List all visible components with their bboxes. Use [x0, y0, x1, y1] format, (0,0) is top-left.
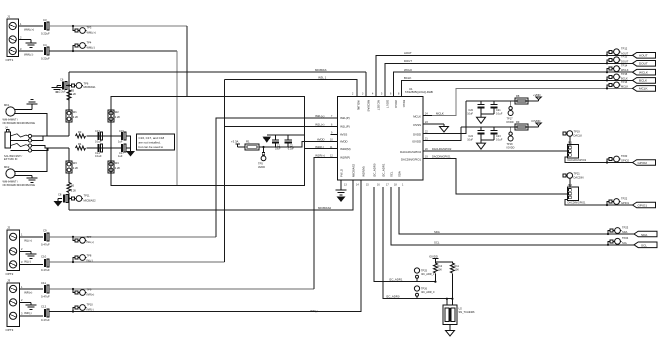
svg-text:TP8: TP8 — [87, 253, 92, 257]
microphone MK2 — [3, 165, 36, 187]
svg-text:ON BOARD MICROPHONE: ON BOARD MICROPHONE — [3, 183, 36, 187]
capacitor C16 in box — [118, 129, 126, 144]
capacitor C23 IOVDD — [491, 127, 503, 141]
test point TP4 WML(-) — [75, 40, 95, 49]
svg-text:+VDD: +VDD — [533, 93, 541, 97]
svg-text:OPT2: OPT2 — [6, 272, 14, 276]
svg-text:DVDD: DVDD — [507, 121, 514, 124]
wire tap up to TP4 — [73, 46, 75, 52]
wire TP21 to jumper JP2 — [569, 178, 571, 187]
svg-text:SCL: SCL — [434, 241, 440, 245]
ground below MK2 — [19, 176, 38, 183]
svg-text:C12: C12 — [41, 304, 47, 308]
svg-text:AOUT: AOUT — [621, 51, 629, 55]
ground DVDD caps — [477, 114, 486, 123]
svg-text:DACDIN: DACDIN — [574, 175, 584, 179]
wire I2C_ADR0 from IC pin17 — [383, 187, 452, 299]
wire DVDD rail — [466, 100, 539, 102]
svg-text:TAS2505Q-DGQ-RHB: TAS2505Q-DGQ-RHB — [405, 90, 433, 94]
svg-text:SCL: SCL — [390, 171, 394, 177]
svg-text:DACDIN/GPIO1: DACDIN/GPIO1 — [568, 202, 587, 205]
capacitor C2 0.1uF AVDD — [285, 135, 295, 151]
svg-text:DVSS: DVSS — [413, 123, 421, 127]
ground MICBIAS2 cap — [54, 199, 63, 207]
wire INR(+) vertical up to IC pin12 — [314, 158, 338, 290]
test point TP9 INR(+) — [73, 287, 94, 296]
junction ADR1 — [434, 281, 436, 283]
svg-text:10uF: 10uF — [275, 148, 281, 151]
svg-text:IN2L(+): IN2L(+) — [315, 114, 324, 118]
svg-text:INR(+): INR(+) — [87, 292, 95, 296]
svg-text:IOVDD: IOVDD — [507, 146, 515, 149]
wire SDA from IC pin1 — [399, 187, 635, 234]
jumper W3 mic left bottom — [66, 148, 79, 173]
junction MICBIAS1 node — [68, 84, 70, 86]
svg-text:WCLK: WCLK — [394, 100, 398, 108]
svg-text:TP13: TP13 — [621, 55, 628, 59]
ground J2 pin2 — [19, 251, 36, 258]
svg-text:MICBIAS1: MICBIAS1 — [84, 85, 97, 89]
svg-text:0.1uF: 0.1uF — [496, 112, 503, 115]
wire IC pin19 DACDIN route to jumper JP2 — [423, 159, 568, 195]
test point TP17 DVDD — [507, 101, 514, 124]
svg-text:WML(+): WML(+) — [87, 30, 96, 34]
resistor R11 10K — [450, 263, 459, 305]
svg-text:TP10: TP10 — [87, 302, 94, 306]
svg-text:IOVDD: IOVDD — [532, 119, 541, 123]
jumper JP1 3pin — [568, 140, 587, 162]
wire WML(+) branch down x186.8 to box — [186, 26, 188, 97]
svg-text:IOVDD: IOVDD — [412, 140, 421, 144]
resistor R10 10K — [434, 262, 443, 282]
svg-text:W4: W4 — [115, 161, 119, 165]
box around mic input option area — [111, 97, 305, 186]
junction at TP3 tap — [72, 25, 74, 27]
svg-text:GPIO2: GPIO2 — [638, 161, 648, 165]
capacitor C21 DVDD — [491, 101, 503, 115]
svg-text:TP7: TP7 — [87, 235, 92, 239]
svg-text:W1: W1 — [73, 110, 77, 114]
capacitor C1 10uF AVDD — [272, 135, 281, 151]
svg-text:R3: R3 — [78, 130, 82, 134]
wire mic line1 into box — [87, 135, 123, 137]
wire AVDD row to IC pin10 — [259, 142, 338, 148]
svg-text:2.2K: 2.2K — [115, 166, 121, 170]
power flag +3.3A — [231, 140, 250, 147]
capacitor C3 0.22uF — [41, 18, 50, 36]
svg-text:I2C_ADR0: I2C_ADR0 — [386, 295, 400, 299]
wire top line y79.5 to IC top pin — [225, 80, 358, 97]
svg-text:INR(-): INR(-) — [87, 307, 94, 311]
svg-text:R6: R6 — [71, 184, 75, 188]
wire cap2 to ground node — [126, 147, 131, 149]
svg-text:GPIO2: GPIO2 — [621, 159, 629, 163]
svg-text:BCLK: BCLK — [639, 79, 648, 83]
svg-text:IOVDD: IOVDD — [429, 255, 438, 259]
capacitor C11 0.47uF — [41, 281, 50, 299]
svg-text:TP4: TP4 — [87, 40, 92, 44]
test point TP11 MICBIAS2 — [69, 193, 96, 202]
resistor R5 2.2K vertical — [67, 89, 76, 101]
flag SDA — [634, 231, 657, 237]
svg-text:TP5: TP5 — [258, 162, 263, 166]
svg-text:MK1: MK1 — [4, 103, 10, 107]
svg-text:AVDD: AVDD — [317, 138, 325, 142]
svg-text:C16, C17, and C18: C16, C17, and C18 — [139, 136, 165, 140]
svg-text:R9: R9 — [516, 120, 520, 124]
svg-text:C9: C9 — [43, 229, 47, 233]
svg-text:J1: J1 — [7, 15, 11, 19]
svg-text:0.1uF: 0.1uF — [496, 138, 503, 141]
svg-text:TP19: TP19 — [574, 129, 581, 133]
ground above MK1 — [19, 100, 38, 110]
svg-text:IN1R(M): IN1R(M) — [340, 147, 351, 151]
svg-text:DACDIN/GPIO1: DACDIN/GPIO1 — [401, 158, 421, 162]
svg-text:10uF: 10uF — [467, 138, 473, 141]
svg-text:SDA: SDA — [622, 230, 628, 234]
svg-text:TP22: TP22 — [621, 196, 628, 200]
wire WML(+) long run to x347 — [49, 25, 187, 27]
test point TP19 DACLK — [563, 129, 582, 137]
test point TP6 MICBIAS1 — [69, 82, 96, 90]
svg-text:WML(-): WML(-) — [87, 45, 96, 49]
power flag IOVDD pullups — [429, 255, 439, 263]
test point TP5 AVDD — [258, 147, 266, 169]
svg-text:DACDIN/GPIO1: DACDIN/GPIO1 — [432, 154, 451, 158]
wire J3 pin1 to C11 — [19, 288, 43, 290]
svg-text:TP12: TP12 — [621, 47, 628, 51]
jack contact 1 — [10, 134, 31, 138]
wire caps to ground in box — [126, 136, 131, 151]
jumper W2 mic right top — [108, 97, 121, 137]
svg-text:DOUT: DOUT — [621, 59, 629, 63]
resistor R4 mic line2 — [76, 142, 86, 150]
test point plug row MCLK — [607, 80, 628, 89]
capacitor C17 in box — [118, 144, 126, 158]
svg-text:R1: R1 — [246, 140, 250, 144]
svg-text:DACLK: DACLK — [574, 133, 583, 137]
capacitor C13 mic line1 — [95, 129, 103, 144]
svg-text:BCLK: BCLK — [621, 76, 628, 80]
svg-text:0.1uF: 0.1uF — [288, 148, 295, 151]
svg-text:TP15: TP15 — [621, 72, 628, 76]
wire caps join to ground DVDD — [481, 113, 494, 115]
svg-text:MK2: MK2 — [4, 165, 10, 169]
wire IC pin23 DVSS stub — [423, 123, 444, 125]
svg-text:C4: C4 — [43, 43, 47, 47]
svg-text:0.47uF: 0.47uF — [41, 242, 50, 246]
ground in mic box — [126, 151, 135, 157]
svg-text:GPIO1: GPIO1 — [621, 201, 629, 205]
svg-text:C17: C17 — [119, 151, 124, 155]
connector J3 (line in, bottom left) — [6, 279, 24, 333]
svg-text:BCLK: BCLK — [404, 76, 411, 80]
wire into U2 top pin — [446, 299, 448, 305]
svg-text:MICBIAS2: MICBIAS2 — [84, 198, 97, 202]
svg-text:WCLK: WCLK — [639, 71, 649, 75]
note box C16 C17 C18 — [137, 134, 175, 150]
svg-text:2.2K: 2.2K — [115, 115, 121, 119]
svg-text:TP24: TP24 — [622, 236, 629, 240]
svg-text:0.22uF: 0.22uF — [41, 57, 50, 61]
resistor R3 mic line1 — [76, 130, 86, 138]
svg-text:INR(-): INR(-) — [24, 311, 32, 315]
flag DOUT — [633, 61, 656, 67]
svg-text:MCLK: MCLK — [413, 115, 421, 119]
wire MICBIAS to IC top pin1 — [365, 72, 367, 97]
svg-text:TP16: TP16 — [621, 80, 628, 84]
svg-text:MCLK: MCLK — [639, 87, 649, 91]
wire IOVDD rail — [461, 126, 539, 128]
test point plug row AOUT — [607, 47, 629, 56]
svg-text:SN_TCA9406: SN_TCA9406 — [459, 310, 476, 314]
svg-text:SDA: SDA — [434, 230, 440, 234]
svg-text:AVDD: AVDD — [258, 165, 265, 169]
svg-text:W2: W2 — [115, 110, 119, 114]
ground DVSS open — [440, 124, 449, 132]
svg-text:C16: C16 — [119, 129, 124, 133]
ground J3 pin2 — [19, 302, 36, 309]
svg-text:WCLK: WCLK — [621, 68, 629, 72]
svg-text:IN3L 1: IN3L 1 — [318, 75, 327, 79]
svg-text:WML(+): WML(+) — [24, 28, 34, 32]
svg-text:10uF: 10uF — [467, 112, 473, 115]
svg-text:0.47uF: 0.47uF — [41, 268, 50, 272]
svg-text:TP14: TP14 — [621, 64, 628, 68]
junction ADR0 at R11 — [451, 298, 453, 300]
svg-text:C8: C8 — [58, 192, 62, 196]
wire IC pin11 route — [305, 148, 338, 150]
test point plug row DOUT — [607, 55, 629, 64]
wire J2 pin3 to C10 — [19, 263, 43, 265]
svg-text:BCLK: BCLK — [402, 100, 406, 107]
ground J1 pin2 — [19, 40, 37, 48]
junction dots at test point taps — [72, 50, 609, 313]
jack contact 2 — [10, 139, 31, 142]
svg-text:DACLRC/GPIO2: DACLRC/GPIO2 — [568, 159, 587, 162]
wire WML(-) to vertical — [49, 50, 177, 52]
jack contact 4 — [10, 149, 31, 152]
svg-text:W3: W3 — [73, 161, 77, 165]
ground U2 — [446, 325, 455, 336]
test point TP8 INL(-) — [73, 253, 93, 262]
svg-text:0.1uF: 0.1uF — [95, 140, 102, 144]
junction AVDD — [262, 146, 264, 148]
wire MICBIAS1 corner down — [68, 72, 70, 110]
capacitor C14 mic line2 — [95, 144, 103, 158]
wire IC pin9 AVSS stub — [331, 134, 338, 136]
wire IC pin21 IOVDD feed — [423, 127, 461, 141]
svg-text:AVDD: AVDD — [340, 140, 348, 144]
svg-text:C10: C10 — [41, 254, 47, 258]
svg-text:J2: J2 — [7, 226, 11, 230]
svg-text:INL(+): INL(+) — [24, 238, 32, 242]
wire J1 pin3 to C4 — [19, 50, 43, 52]
flag MCLK — [633, 86, 656, 92]
wire BCLK bus — [402, 80, 634, 96]
ground at MICBIAS1 cap — [52, 86, 63, 92]
svg-text:MICBIAS: MICBIAS — [367, 100, 371, 112]
svg-text:GPIO1: GPIO1 — [638, 203, 648, 207]
test point TP21 DACDIN — [563, 171, 584, 179]
svg-text:but can be used to: but can be used to — [139, 145, 164, 149]
wire MICBIAS1 horizontal run — [69, 71, 366, 73]
wire TP25 stub to ADR1 row — [416, 278, 418, 281]
svg-text:I2C_ADR0: I2C_ADR0 — [373, 163, 377, 177]
svg-text:DACLRC/GPIO2: DACLRC/GPIO2 — [432, 147, 452, 151]
test point TP3 WML(+) — [75, 25, 96, 34]
svg-text:IN1R(M): IN1R(M) — [362, 166, 366, 177]
wire jack c4 joins line2 — [32, 148, 48, 150]
svg-text:1uF: 1uF — [118, 154, 123, 158]
capacitor C20 DVDD — [467, 101, 484, 115]
capacitor C6 MICBIAS1 — [59, 78, 67, 94]
wire IC pin6 horizontal — [225, 126, 338, 128]
wire INL(-) vertical up to PDLL line — [224, 80, 226, 263]
svg-text:WCLK: WCLK — [404, 68, 412, 72]
svg-text:ON BOARD MICROPHONE: ON BOARD MICROPHONE — [3, 121, 36, 125]
test point plug SCL — [608, 236, 629, 245]
wire JP2 to GPIO1 plug — [565, 200, 633, 206]
svg-text:WM-64MNT /: WM-64MNT / — [3, 118, 19, 122]
svg-text:INL(+): INL(+) — [87, 240, 94, 244]
jumper W4 mic right bottom — [108, 148, 121, 185]
svg-text:J3: J3 — [7, 279, 11, 283]
flag SCL — [634, 242, 657, 248]
svg-text:2.2K: 2.2K — [71, 92, 77, 96]
wire IC pin20 DACLRC to jumper JP1 — [423, 150, 568, 152]
wire jumper W1 to mic line — [68, 122, 70, 136]
jack J4 ext mic in barrel — [4, 126, 22, 161]
svg-text:AVSS: AVSS — [340, 133, 347, 137]
wire caps join to ground IOVDD — [481, 139, 494, 141]
wire TP19 to jumper JP1 — [569, 136, 571, 144]
svg-text:10K: 10K — [438, 268, 443, 271]
test point plug row BCLK — [607, 72, 628, 81]
svg-text:IN1R(+): IN1R(+) — [315, 154, 325, 158]
microphone MK1 — [3, 103, 36, 125]
capacitor C10 0.47uF — [41, 254, 50, 272]
svg-text:SDA: SDA — [398, 171, 402, 177]
jumper W1 mic left top — [66, 110, 79, 122]
wire SCL from IC pin18 — [391, 187, 635, 245]
svg-text:AOUT: AOUT — [639, 54, 648, 58]
svg-text:1uF: 1uF — [118, 140, 123, 144]
svg-text:I2C_ADR_1: I2C_ADR_1 — [421, 273, 435, 276]
svg-text:IN2L(P): IN2L(P) — [340, 116, 350, 120]
wire WML(-) vertical x177 — [176, 51, 178, 185]
svg-text:0.22uF: 0.22uF — [41, 32, 50, 36]
svg-text:DVDD: DVDD — [413, 133, 421, 137]
test point plug GPIO1 — [607, 196, 629, 205]
power flag IOVDD — [532, 119, 542, 127]
wire J1 pin1 to C3 — [19, 25, 43, 27]
junction ADR0 at U2 pin — [446, 298, 448, 300]
test point plug row WCLK — [607, 64, 629, 73]
wire IC pin24 stub — [423, 115, 432, 117]
svg-text:0.47uF: 0.47uF — [41, 318, 50, 322]
test point TP26 I2C_ADR_0 — [414, 286, 435, 296]
wire jack c2 joins line1 — [32, 136, 43, 140]
svg-text:SCL: SCL — [641, 244, 647, 248]
wire WCLK bus — [394, 72, 634, 96]
test point TP7 INL(+) — [73, 235, 94, 244]
ground IOVDD caps — [477, 140, 486, 149]
connector J2 (line in, lower left) — [6, 226, 24, 277]
junction MICBIAS2 node — [68, 197, 70, 199]
svg-text:INL(-): INL(-) — [87, 258, 94, 262]
svg-text:TP23: TP23 — [622, 225, 629, 229]
svg-text:2.2K: 2.2K — [73, 115, 79, 119]
svg-text:U2: U2 — [459, 307, 463, 311]
svg-text:NC/SET: NC/SET — [377, 100, 381, 111]
wire DOUT bus — [385, 63, 633, 96]
svg-text:R4: R4 — [78, 142, 82, 146]
jack contact 3 — [10, 143, 31, 147]
wire jack c1 to mic line1 — [32, 135, 69, 137]
wire MCLK bus — [432, 88, 633, 115]
svg-text:INL(-): INL(-) — [24, 259, 31, 263]
flag BCLK — [633, 78, 656, 84]
wire INL(+) vertical up to IC pin7 — [216, 118, 338, 237]
wire AOUT bus — [376, 55, 633, 96]
power flag +VDD — [533, 93, 541, 101]
resistor R1 box AVDD — [245, 144, 259, 150]
wire cap to junction — [66, 85, 69, 87]
wire INR(+) run to vertical — [49, 288, 314, 290]
svg-text:I2C_ADR1: I2C_ADR1 — [389, 278, 403, 282]
svg-text:IN3L(M): IN3L(M) — [357, 100, 361, 110]
wire J2 pin1 to C9 — [19, 236, 43, 238]
test point plug SDA — [608, 225, 629, 234]
svg-text:C6: C6 — [60, 78, 64, 82]
svg-text:TP21: TP21 — [574, 171, 581, 175]
svg-text:2.2uF: 2.2uF — [59, 90, 66, 94]
resistor R9 box IOVDD — [515, 120, 528, 130]
svg-text:WML(-): WML(-) — [24, 53, 33, 57]
svg-text:I2C_ADR1: I2C_ADR1 — [382, 163, 386, 177]
svg-text:SDA: SDA — [641, 233, 648, 237]
svg-text:0.1uF: 0.1uF — [95, 154, 102, 158]
wire INL(+) run to vertical — [49, 236, 216, 238]
capacitor C8 MICBIAS2 — [58, 192, 69, 202]
test point TP10 INR(-) — [73, 302, 94, 311]
svg-text:IN1L(P): IN1L(P) — [340, 125, 350, 129]
svg-text:OPT1: OPT1 — [6, 58, 14, 62]
svg-text:INR(-): INR(-) — [310, 309, 318, 313]
capacitor C9 0.47uF — [41, 229, 50, 247]
svg-text:10K: 10K — [455, 268, 460, 271]
svg-text:IN1L(+): IN1L(+) — [315, 123, 324, 127]
wire INL(-) run to vertical — [49, 261, 225, 263]
svg-text:JP1: JP1 — [568, 140, 573, 144]
test point plug GPIO2 — [607, 154, 629, 163]
svg-text:INR(+): INR(+) — [24, 291, 32, 295]
resistor R8 box DVDD — [515, 94, 528, 104]
svg-text:DOUT: DOUT — [404, 59, 412, 63]
svg-text:R5: R5 — [71, 89, 75, 93]
svg-text:SCL: SCL — [622, 241, 628, 245]
wire J3 pin3 to C12 — [19, 315, 43, 317]
svg-text:C11: C11 — [41, 281, 46, 285]
svg-text:MICBIAS2: MICBIAS2 — [318, 206, 332, 210]
wire MICBIAS2 run to IC — [69, 180, 353, 210]
svg-text:are not installed,: are not installed, — [139, 141, 161, 145]
svg-text:JP2: JP2 — [568, 183, 573, 187]
svg-text:TP6: TP6 — [84, 82, 89, 86]
capacitor C4 0.22uF — [41, 43, 50, 61]
flag AOUT — [633, 53, 656, 59]
